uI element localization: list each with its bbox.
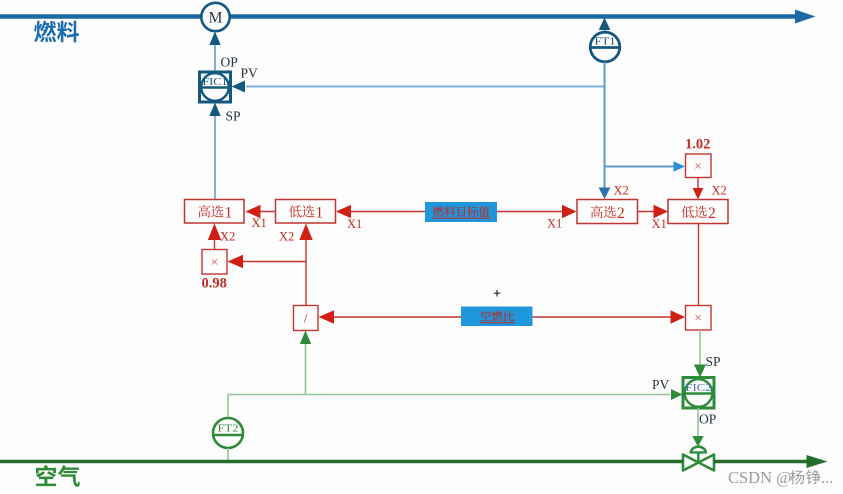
svg-text:1: 1 <box>225 205 233 222</box>
svg-text:FT1: FT1 <box>595 37 616 48</box>
svg-text:X2: X2 <box>614 184 629 198</box>
svg-text:/: / <box>304 311 308 326</box>
controller FIC1 <box>200 72 231 102</box>
svg-text:×: × <box>211 255 219 270</box>
multiplier x (SP calc) <box>686 306 712 331</box>
svg-text:X2: X2 <box>279 230 294 244</box>
transmitter FT1 <box>590 32 620 62</box>
svg-text:X2: X2 <box>712 184 727 198</box>
wire: 高选2 to 低选2 <box>638 205 669 218</box>
svg-text:FIC2: FIC2 <box>686 382 712 394</box>
selector 低选1 <box>276 200 336 224</box>
wire: 燃料目标值 to 低选1 <box>336 205 425 218</box>
svg-text:X1: X1 <box>547 217 562 231</box>
multiplier x0.98 <box>202 250 227 275</box>
wire: FT2 line up into divider <box>300 331 311 395</box>
wire: FT1 down to 高选2 <box>599 62 611 199</box>
svg-text:SP: SP <box>226 109 241 124</box>
multiplier x1.02 <box>686 154 712 178</box>
svg-text:OP: OP <box>699 412 716 427</box>
motor M <box>201 3 229 31</box>
svg-text:X1: X1 <box>347 217 362 231</box>
wire: 空燃比 to multiplier right <box>533 310 686 323</box>
svg-text:X1: X1 <box>652 217 667 231</box>
wire SP: 高选1 to FIC1 <box>209 103 220 200</box>
wire: 燃料目标值 to 高选2 <box>497 205 577 218</box>
wire branch: FT1 line to multiplier x1.02 <box>605 161 686 172</box>
svg-text:M: M <box>209 10 223 27</box>
label 燃料 (fuel) <box>34 21 79 43</box>
svg-text:2: 2 <box>708 205 716 222</box>
wire: x1.02 to 低选2 <box>693 178 704 200</box>
wire OP: FIC1 to motor M <box>209 32 220 72</box>
wire: 空燃比 to divider <box>319 310 462 323</box>
svg-text:2: 2 <box>617 205 625 222</box>
air line (空气 pipe) <box>0 455 828 468</box>
label 空气 (air) <box>36 465 80 487</box>
wire branch: divider output to multiplier x0.98 <box>228 255 307 268</box>
wire PV: FT1 branch to FIC1 <box>232 81 605 93</box>
svg-text:SP: SP <box>706 354 721 369</box>
controller FIC2 <box>683 378 714 409</box>
selector 低选2 <box>668 200 728 224</box>
wire: x0.98 to 高选1 <box>208 224 221 250</box>
svg-text:...: ... <box>821 468 833 487</box>
svg-text:FT2: FT2 <box>218 424 239 435</box>
fuel line (燃料 header pipe) <box>0 10 816 24</box>
control valve <box>683 447 714 471</box>
wire PV: FT2 to FIC2 <box>228 389 683 400</box>
svg-text:0.98: 0.98 <box>202 276 227 292</box>
wire SP: multiplier to FIC2 <box>694 330 706 378</box>
svg-text:X2: X2 <box>220 230 235 244</box>
watermark CSDN <box>728 468 833 487</box>
svg-text:×: × <box>694 310 702 325</box>
svg-text:OP: OP <box>221 55 238 70</box>
wire: FT1 tap to fuel line <box>599 18 611 33</box>
air-fuel ratio box 空燃比 <box>461 307 533 327</box>
svg-text:X1: X1 <box>252 216 267 230</box>
wire: 低选2 down to multiplier <box>698 224 700 306</box>
selector 高选2 <box>577 200 638 224</box>
wire OP: FIC2 to valve <box>692 408 703 447</box>
wire: divider up to 低选1 <box>299 224 312 306</box>
svg-text:1: 1 <box>316 205 324 222</box>
wire: FT2 tap to air line <box>227 448 229 460</box>
svg-text:CSDN @: CSDN @ <box>728 468 791 487</box>
divider / <box>294 306 319 331</box>
cursor cross <box>494 290 500 297</box>
svg-text:FIC1: FIC1 <box>203 76 228 88</box>
svg-text:PV: PV <box>652 377 670 392</box>
wire: 低选1 to 高选1 <box>246 205 276 218</box>
svg-text:1.02: 1.02 <box>685 137 710 153</box>
svg-text:×: × <box>694 159 702 174</box>
transmitter FT2 <box>213 418 243 448</box>
wire: FT2 up to PV line <box>227 395 229 418</box>
svg-text:PV: PV <box>241 66 259 81</box>
fuel target box 燃料目标值 <box>425 202 497 222</box>
selector 高选1 <box>185 200 245 224</box>
